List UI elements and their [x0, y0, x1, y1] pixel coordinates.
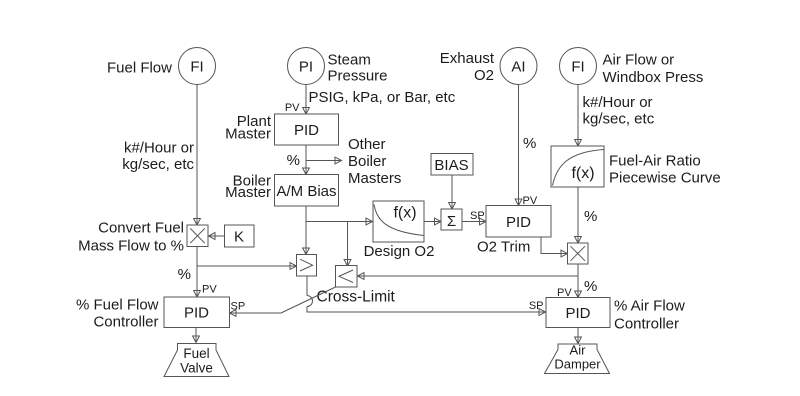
- svg-text:Σ: Σ: [447, 213, 456, 230]
- svg-text:%: %: [584, 278, 597, 295]
- sensor circle AI (exhaust O2): [500, 48, 537, 85]
- svg-text:% Air FlowController: % Air FlowController: [614, 297, 685, 332]
- op-amp % Air Flow Controller PID: [546, 298, 610, 328]
- op-amp % Fuel Flow Controller PID: [164, 297, 230, 328]
- wire multiplier to Air PID (PV) with branch to low-select: [575, 264, 582, 298]
- wire sigma to O2 Trim PID (SP): [462, 218, 486, 225]
- wire low-select output to Fuel PID SP (diagonal): [230, 287, 336, 316]
- svg-text:PID: PID: [506, 214, 531, 231]
- wire Plant PID to A/M Bias: [303, 145, 310, 175]
- function block Design O2 f(x): [373, 201, 424, 242]
- svg-text:BoilerMaster: BoilerMaster: [225, 173, 271, 202]
- multiplier X (air): [568, 243, 589, 264]
- wire Air PID to Air Damper: [575, 328, 582, 344]
- svg-text:PV: PV: [285, 102, 300, 114]
- actuator Fuel Valve: [164, 344, 229, 377]
- wire PI to Plant PID: [303, 85, 310, 115]
- op-amp O2 Trim PID: [486, 206, 551, 238]
- low-select <: [336, 266, 358, 288]
- svg-text:%: %: [584, 208, 597, 225]
- gain block K: [225, 225, 255, 247]
- svg-text:f(x): f(x): [393, 205, 416, 222]
- svg-text:%: %: [287, 152, 300, 169]
- svg-text:PlantMaster: PlantMaster: [225, 113, 272, 143]
- svg-text:A/M Bias: A/M Bias: [276, 183, 336, 200]
- svg-text:SP: SP: [470, 210, 485, 222]
- wire AI to O2 Trim PID: [515, 85, 522, 206]
- sensor circle FI (air flow): [560, 48, 597, 85]
- svg-text:k#/Hour orkg/sec, etc: k#/Hour orkg/sec, etc: [122, 140, 194, 174]
- svg-text:PI: PI: [299, 59, 313, 76]
- op-amp Boiler Master A/M Bias: [275, 175, 339, 207]
- wire Design O2 to sigma: [424, 218, 441, 225]
- summer sigma: [441, 209, 462, 230]
- svg-text:ExhaustO2: ExhaustO2: [440, 50, 495, 84]
- wire convert X down to Fuel PID (PV): [194, 247, 201, 298]
- svg-text:AI: AI: [511, 59, 525, 76]
- wire O2 Trim output to multiplier: [541, 237, 568, 257]
- op-amp Plant Master PID: [275, 114, 339, 145]
- svg-text:f(x): f(x): [571, 165, 594, 182]
- svg-text:BIAS: BIAS: [434, 157, 468, 174]
- wire fuel-air curve to multiplier: [575, 187, 582, 243]
- svg-text:SP: SP: [529, 300, 544, 312]
- function block Fuel-Air Ratio f(x): [551, 146, 604, 187]
- sensor circle PI (steam pressure): [288, 48, 325, 85]
- svg-text:PID: PID: [184, 305, 209, 322]
- svg-text:O2 Trim: O2 Trim: [477, 239, 530, 256]
- svg-text:PID: PID: [294, 122, 319, 139]
- svg-text:Air Flow orWindbox Press: Air Flow orWindbox Press: [603, 52, 704, 87]
- block BIAS: [431, 154, 473, 176]
- svg-text:% Fuel FlowController: % Fuel FlowController: [76, 297, 159, 331]
- svg-text:%: %: [523, 135, 536, 152]
- svg-text:K: K: [234, 229, 244, 246]
- svg-text:OtherBoilerMasters: OtherBoilerMasters: [348, 136, 401, 187]
- svg-text:Design O2: Design O2: [364, 243, 435, 260]
- svg-text:SP: SP: [231, 301, 246, 313]
- svg-text:FI: FI: [571, 59, 584, 76]
- wire Fuel PID to Fuel Valve: [193, 328, 200, 343]
- wire demand branch down to low-select: [344, 222, 351, 267]
- svg-text:PV: PV: [202, 284, 217, 296]
- wire high-select output to Air PID SP (with hop over diagonal): [307, 276, 546, 315]
- svg-text:Cross-Limit: Cross-Limit: [317, 289, 396, 306]
- svg-text:Fuel-Air RatioPiecewise Curve: Fuel-Air RatioPiecewise Curve: [609, 152, 721, 186]
- sensor circle FI (fuel flow): [179, 48, 216, 85]
- wire demand branch right to Design O2: [306, 218, 373, 225]
- high-select >: [297, 255, 317, 277]
- wire K to convert X: [209, 233, 225, 240]
- actuator Air Damper: [545, 343, 610, 374]
- svg-text:FuelValve: FuelValve: [180, 346, 213, 376]
- svg-text:k#/Hour orkg/sec, etc: k#/Hour orkg/sec, etc: [583, 94, 655, 128]
- svg-text:%: %: [178, 266, 191, 283]
- svg-text:PID: PID: [565, 305, 590, 322]
- wire A/M Bias demand down to high-select: [303, 206, 310, 255]
- wire fuel % branch right to high-select: [197, 263, 297, 270]
- svg-text:PSIG, kPa, or Bar, etc: PSIG, kPa, or Bar, etc: [309, 89, 456, 106]
- wire branch left to low-select: [358, 273, 579, 280]
- svg-text:SteamPressure: SteamPressure: [328, 52, 388, 85]
- wire branch to Other Boiler Masters: [306, 157, 342, 164]
- svg-text:Convert FuelMass Flow to %: Convert FuelMass Flow to %: [78, 220, 184, 255]
- wire BIAS to sigma: [449, 175, 456, 209]
- wire FI (air) to fuel-air curve: [575, 85, 582, 147]
- svg-text:FI: FI: [190, 59, 203, 76]
- multiplier X (convert fuel): [187, 225, 208, 247]
- wire FI (fuel) to convert X: [194, 85, 201, 226]
- svg-text:Fuel Flow: Fuel Flow: [107, 60, 172, 77]
